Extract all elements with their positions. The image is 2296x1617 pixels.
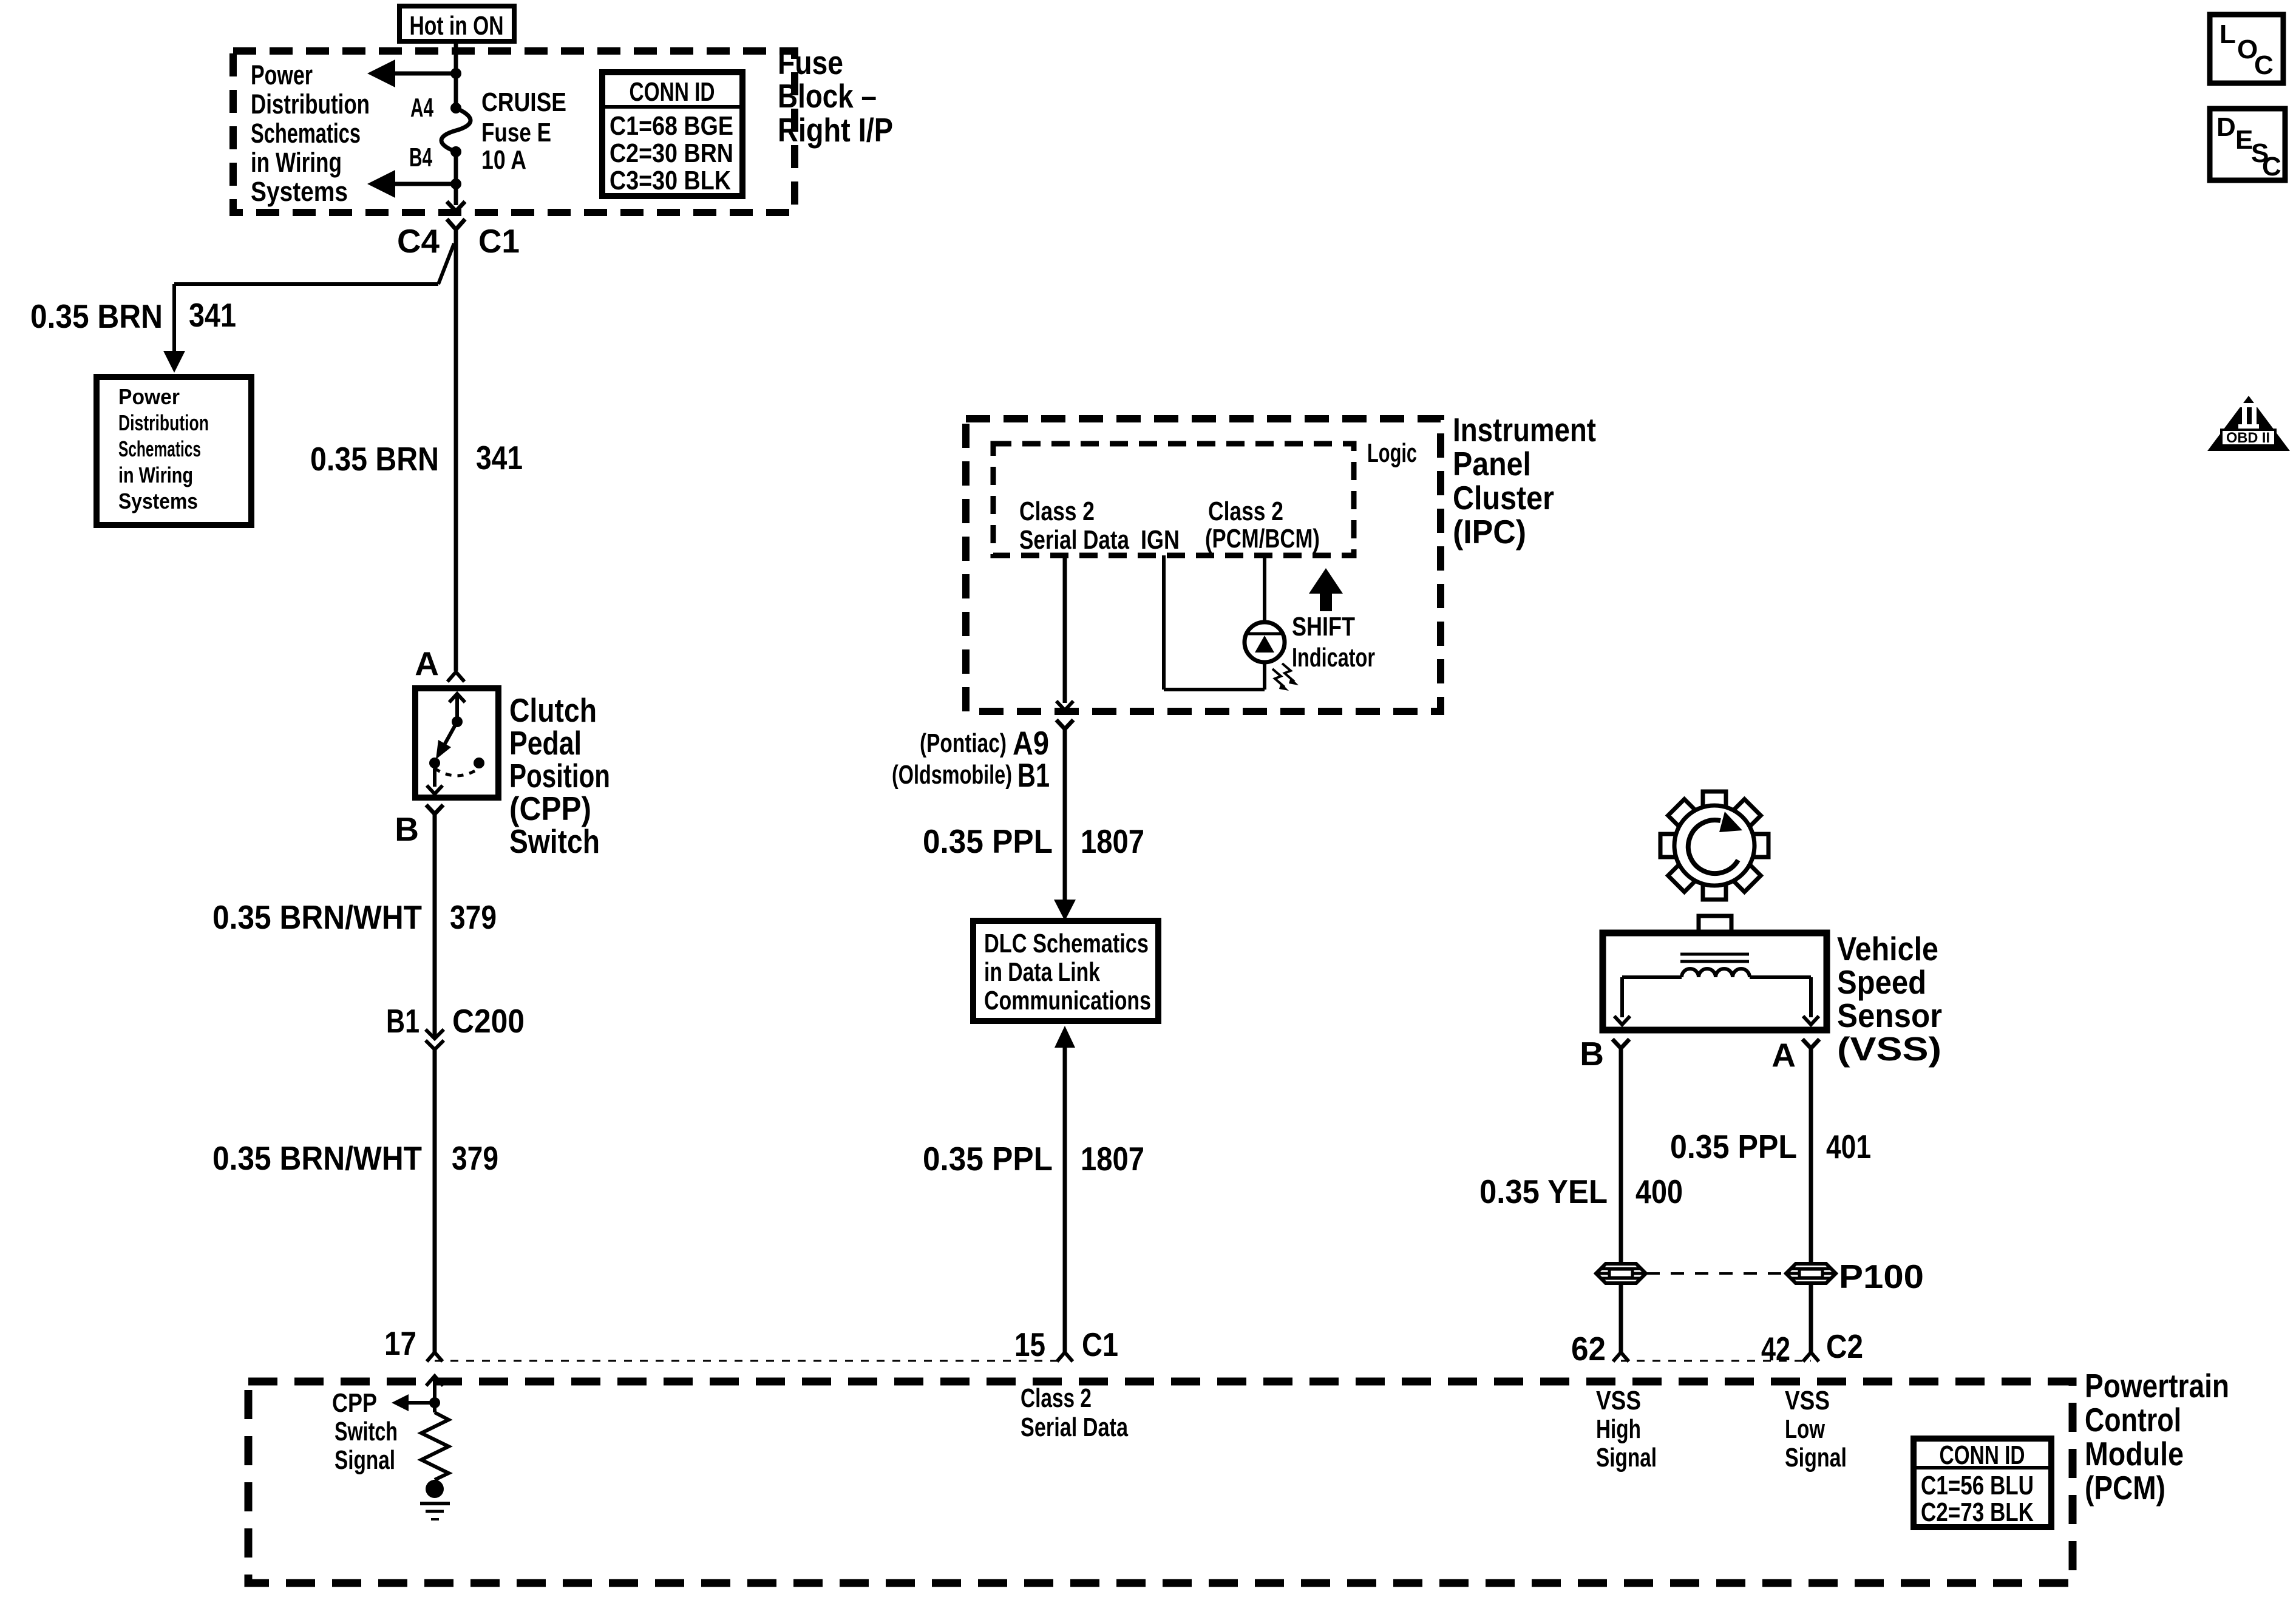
svg-text:(CPP): (CPP) [509, 790, 591, 827]
svg-text:Serial Data: Serial Data [1019, 525, 1129, 555]
svg-text:A: A [1771, 1036, 1796, 1074]
svg-text:A4: A4 [410, 93, 433, 123]
svg-text:OBD II: OBD II [2226, 430, 2270, 446]
svg-text:L: L [2220, 19, 2236, 49]
svg-text:C4: C4 [397, 222, 440, 260]
svg-text:Panel: Panel [1453, 445, 1531, 483]
svg-text:Vehicle: Vehicle [1837, 930, 1938, 968]
svg-text:341: 341 [189, 296, 236, 334]
svg-text:(PCM/BCM): (PCM/BCM) [1205, 524, 1320, 554]
svg-text:C2: C2 [1826, 1327, 1863, 1365]
svg-text:0.35 PPL: 0.35 PPL [923, 1140, 1053, 1178]
svg-text:Position: Position [509, 757, 610, 795]
svg-text:Fuse: Fuse [778, 44, 843, 81]
svg-text:379: 379 [452, 1139, 498, 1177]
svg-text:VSS: VSS [1596, 1386, 1641, 1415]
svg-text:CONN ID: CONN ID [630, 77, 715, 107]
svg-text:Schematics: Schematics [251, 118, 361, 149]
svg-text:Distribution: Distribution [118, 410, 209, 435]
svg-text:C1: C1 [478, 222, 520, 260]
svg-text:Signal: Signal [335, 1445, 395, 1475]
svg-text:17: 17 [384, 1324, 416, 1362]
svg-text:Signal: Signal [1785, 1443, 1847, 1473]
svg-text:C3=30 BLK: C3=30 BLK [610, 166, 731, 195]
svg-text:C: C [2262, 152, 2281, 181]
svg-text:Hot in ON: Hot in ON [410, 11, 504, 41]
svg-text:CRUISE: CRUISE [481, 87, 566, 117]
svg-text:401: 401 [1826, 1128, 1871, 1165]
svg-text:VSS: VSS [1785, 1386, 1830, 1415]
svg-text:Systems: Systems [251, 176, 348, 207]
svg-text:in Wiring: in Wiring [118, 463, 193, 487]
svg-text:Class 2: Class 2 [1021, 1383, 1092, 1413]
svg-text:1807: 1807 [1081, 1140, 1144, 1178]
svg-text:0.35 PPL: 0.35 PPL [1670, 1128, 1797, 1165]
svg-text:C200: C200 [452, 1002, 525, 1040]
svg-text:1807: 1807 [1081, 822, 1144, 860]
svg-text:Low: Low [1785, 1414, 1826, 1444]
svg-text:Clutch: Clutch [509, 691, 597, 729]
svg-text:in Data Link: in Data Link [984, 957, 1100, 987]
svg-text:B: B [395, 810, 419, 848]
svg-text:D: D [2216, 112, 2236, 142]
svg-text:0.35 PPL: 0.35 PPL [923, 822, 1053, 860]
svg-text:15: 15 [1014, 1326, 1045, 1363]
svg-text:CPP: CPP [332, 1388, 377, 1418]
svg-text:Class 2: Class 2 [1208, 497, 1283, 526]
svg-text:Speed: Speed [1837, 963, 1926, 1001]
svg-text:A: A [415, 645, 439, 682]
svg-text:Fuse E: Fuse E [481, 118, 551, 147]
svg-text:CONN ID: CONN ID [1940, 1440, 2025, 1470]
svg-text:in Wiring: in Wiring [251, 147, 342, 178]
svg-text:Serial Data: Serial Data [1021, 1412, 1128, 1442]
svg-text:B: B [1580, 1035, 1604, 1073]
svg-text:0.35 YEL: 0.35 YEL [1479, 1173, 1608, 1210]
svg-text:DLC Schematics: DLC Schematics [984, 929, 1149, 958]
svg-text:Right I/P: Right I/P [778, 111, 893, 149]
svg-text:Schematics: Schematics [118, 436, 201, 461]
svg-text:Instrument: Instrument [1453, 411, 1596, 449]
svg-text:(Pontiac): (Pontiac) [920, 728, 1007, 758]
svg-text:B1: B1 [1017, 756, 1050, 794]
svg-text:(PCM): (PCM) [2085, 1469, 2165, 1507]
svg-text:High: High [1596, 1414, 1641, 1444]
svg-text:B1: B1 [386, 1002, 419, 1040]
svg-text:C: C [2254, 50, 2274, 80]
svg-text:(VSS): (VSS) [1837, 1030, 1941, 1068]
svg-text:IGN: IGN [1141, 525, 1180, 555]
svg-text:Block –: Block – [778, 77, 877, 115]
svg-text:62: 62 [1571, 1330, 1606, 1368]
svg-text:Switch: Switch [509, 822, 600, 860]
svg-text:0.35 BRN/WHT: 0.35 BRN/WHT [212, 898, 422, 936]
svg-text:Communications: Communications [984, 986, 1151, 1015]
svg-text:Power: Power [251, 59, 313, 90]
svg-text:0.35 BRN: 0.35 BRN [30, 297, 163, 335]
svg-text:C2=73 BLK: C2=73 BLK [1921, 1497, 2034, 1527]
svg-text:0.35 BRN: 0.35 BRN [310, 440, 439, 478]
svg-text:Systems: Systems [118, 489, 198, 514]
svg-text:Control: Control [2085, 1401, 2181, 1439]
svg-text:0.35 BRN/WHT: 0.35 BRN/WHT [212, 1139, 422, 1177]
svg-text:Pedal: Pedal [509, 724, 582, 762]
svg-text:Signal: Signal [1596, 1443, 1657, 1473]
svg-text:Logic: Logic [1367, 438, 1417, 468]
svg-text:C1=56 BLU: C1=56 BLU [1921, 1471, 2034, 1500]
svg-text:B4: B4 [409, 143, 432, 172]
svg-text:(IPC): (IPC) [1453, 513, 1526, 551]
svg-text:341: 341 [476, 439, 523, 476]
svg-text:Class 2: Class 2 [1019, 497, 1095, 526]
svg-text:E: E [2235, 125, 2253, 155]
svg-text:Cluster: Cluster [1453, 479, 1554, 517]
svg-text:Powertrain: Powertrain [2085, 1367, 2229, 1405]
svg-text:C1: C1 [1082, 1326, 1118, 1363]
svg-text:379: 379 [450, 898, 497, 936]
svg-text:400: 400 [1635, 1173, 1683, 1210]
svg-text:Module: Module [2085, 1435, 2184, 1473]
svg-text:Switch: Switch [335, 1417, 398, 1446]
svg-text:10 A: 10 A [481, 145, 526, 175]
svg-text:C1=68 BGE: C1=68 BGE [610, 111, 733, 141]
svg-text:Indicator: Indicator [1292, 643, 1375, 673]
svg-text:C2=30 BRN: C2=30 BRN [610, 138, 733, 168]
svg-text:P100: P100 [1839, 1258, 1924, 1295]
svg-text:SHIFT: SHIFT [1292, 612, 1355, 642]
svg-text:Distribution: Distribution [251, 89, 370, 120]
svg-text:42: 42 [1761, 1330, 1790, 1368]
svg-text:Power: Power [118, 384, 180, 409]
svg-text:Sensor: Sensor [1837, 997, 1942, 1034]
svg-text:(Oldsmobile): (Oldsmobile) [892, 760, 1012, 790]
